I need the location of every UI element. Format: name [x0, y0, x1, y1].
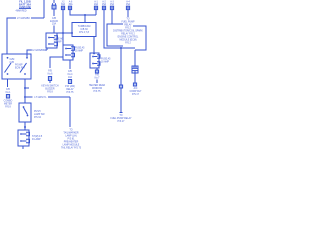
label TO FUEL PUMP RELAY DISTRIBUTOR ECM: [113, 19, 143, 45]
svg-text:LAMP MODULE: LAMP MODULE: [63, 144, 80, 147]
wire CB1 down out: [69, 60, 71, 69]
circuit breaker C/B2: [132, 66, 138, 73]
wire CB1 left out: [50, 57, 63, 68]
svg-text:30 AMP: 30 AMP: [54, 40, 63, 43]
wire C/B2 down: [134, 71, 136, 83]
label TO FUEL PUMP RELAY: [110, 115, 131, 123]
svg-text:C2B: C2B: [10, 62, 15, 64]
svg-text:HEATED REAR: HEATED REAR: [89, 84, 106, 87]
svg-text:P/S 64: P/S 64: [34, 117, 42, 119]
svg-text:TO: TO: [119, 115, 122, 117]
label F/B No.7: [95, 75, 101, 80]
svg-text:30 AMP: 30 AMP: [75, 50, 84, 53]
label fuse A-4: [126, 1, 131, 7]
svg-text:LT GRN/YL: LT GRN/YL: [34, 96, 47, 99]
svg-text:15A: 15A: [52, 23, 57, 26]
wire TURBO to CB2: [93, 37, 95, 54]
wire CB2 down: [96, 68, 98, 70]
fuse A-6: [68, 6, 71, 9]
wire A-3 to ECM box: [111, 10, 113, 24]
fuse symbol combo: [6, 95, 9, 99]
wire A-6 to bus: [70, 10, 96, 15]
fuse F/B No.6 chain: [48, 71, 54, 76]
label ignition switch: [10, 59, 26, 69]
wire bus y33: [57, 32, 72, 34]
wire fuse J-2 down: [62, 10, 64, 45]
svg-text:BUZZER: BUZZER: [45, 89, 55, 91]
ignition switch box: [2, 54, 31, 79]
node at 88: [24, 87, 26, 89]
connector box CB2 with pins: [90, 53, 100, 68]
connector box lower with pins: [18, 130, 30, 146]
fuse symbol No.6: [48, 77, 51, 84]
wire No.7 down: [96, 80, 98, 84]
svg-text:RELAY P/S 2: RELAY P/S 2: [121, 33, 135, 36]
svg-text:RELAY: RELAY: [66, 88, 74, 91]
svg-text:P/S 17: P/S 17: [118, 121, 126, 123]
svg-text:KEY-IN SWITCH: KEY-IN SWITCH: [41, 86, 58, 88]
svg-text:METER: METER: [4, 104, 12, 106]
circuit breaker ECM-B: [52, 0, 56, 33]
svg-text:15A: 15A: [126, 3, 131, 6]
svg-text:P/S 8: P/S 8: [5, 107, 11, 109]
svg-text:A-4: A-4: [126, 1, 130, 4]
svg-text:A-3: A-3: [110, 1, 114, 4]
wire LT GRN/BK: [7, 0, 44, 54]
svg-text:A-1: A-1: [94, 1, 98, 4]
node bus to TURBO box: [84, 14, 86, 16]
svg-text:FUSE A6: FUSE A6: [54, 37, 64, 40]
svg-text:P.W (AM): P.W (AM): [65, 85, 75, 88]
svg-text:20A: 20A: [94, 3, 99, 6]
wire A-1 up: [95, 10, 97, 15]
svg-text:P/S 2: P/S 2: [125, 28, 131, 30]
svg-text:PRE/HEATER: PRE/HEATER: [64, 141, 79, 144]
svg-text:30A: 30A: [61, 3, 66, 6]
svg-text:P/S 4,7,8: P/S 4,7,8: [79, 31, 90, 34]
svg-text:DISTRIBUTOR/COIL SPARK: DISTRIBUTOR/COIL SPARK: [113, 30, 143, 33]
svg-text:P/S 61: P/S 61: [68, 139, 76, 141]
label TURBO box: [78, 25, 91, 34]
svg-text:ENGINE CONTROL: ENGINE CONTROL: [118, 37, 139, 39]
block underline: [19, 7, 31, 9]
svg-text:TAIL RELAY P/S 75: TAIL RELAY P/S 75: [61, 147, 82, 150]
ECM box right bracket: [133, 26, 146, 50]
label key switch: [34, 111, 45, 119]
svg-text:10A: 10A: [68, 76, 73, 79]
svg-text:J-2: J-2: [61, 2, 65, 4]
node at 72: [71, 32, 73, 34]
fusible link block J/B: [19, 0, 31, 9]
wire A-4 down: [127, 10, 129, 17]
svg-text:No.6: No.6: [48, 74, 54, 76]
svg-text:WINDOW: WINDOW: [92, 88, 103, 90]
svg-text:FUEL PUMP: FUEL PUMP: [121, 22, 135, 24]
svg-text:A-6: A-6: [69, 1, 73, 4]
fuse A-3: [110, 6, 113, 9]
svg-text:P/S 2: P/S 2: [125, 43, 131, 45]
label CB1: [75, 47, 85, 53]
svg-text:P/S-BP: P/S-BP: [15, 65, 23, 67]
fuse A-1: [94, 6, 97, 9]
wire down to label: [120, 88, 122, 112]
svg-text:F/B: F/B: [95, 75, 99, 77]
wire A-2 branch down: [120, 48, 122, 85]
label fuse A-6: [68, 1, 73, 7]
stub at 88: [25, 87, 29, 89]
svg-text:LT GRN/BK: LT GRN/BK: [17, 17, 30, 20]
svg-text:RELAY: RELAY: [124, 24, 132, 27]
svg-text:FUSE A5: FUSE A5: [101, 58, 111, 61]
svg-text:P/S 17: P/S 17: [132, 94, 140, 96]
svg-text:LAMP (LH): LAMP (LH): [65, 135, 77, 138]
fuse symbol A/C: [133, 83, 136, 86]
svg-text:COMBO: COMBO: [4, 101, 13, 103]
TURBO junction box: [72, 23, 96, 37]
wire lower out: [22, 146, 24, 149]
wire switch down right leg: [24, 79, 26, 103]
connector box CB1 with pins: [63, 45, 75, 60]
node at 97: [24, 96, 26, 98]
fuse symbol F/B No.7: [95, 70, 98, 73]
svg-text:LAMP SW: LAMP SW: [34, 113, 45, 116]
fuse symbol fuel pump: [119, 85, 122, 88]
svg-text:PUSH: PUSH: [34, 111, 41, 113]
svg-text:ST(M) 0.5: ST(M) 0.5: [32, 136, 43, 138]
label HEATED REAR WINDOW: [89, 84, 106, 93]
label connector lower: [32, 136, 43, 141]
svg-text:P/S 75: P/S 75: [67, 92, 75, 94]
label fuse J-2: [61, 2, 66, 7]
svg-text:F/B: F/B: [68, 71, 72, 73]
connector tick: [120, 112, 123, 114]
svg-text:F/B: F/B: [6, 89, 10, 91]
label TO TAIL MARKER LAMP block: [61, 130, 82, 150]
label A/C COMP RLY: [130, 87, 142, 96]
label CB2: [101, 58, 111, 64]
node at 127: [24, 126, 26, 128]
label P.W (AM) RELAY: [65, 85, 75, 94]
svg-text:30 AMP: 30 AMP: [101, 61, 110, 64]
label KEY-IN SWITCH BUZZER: [41, 86, 58, 94]
label fuse A-1: [94, 1, 99, 7]
svg-text:R LAMP: R LAMP: [32, 138, 41, 141]
key switch box lower: [19, 103, 31, 122]
svg-text:P/S 8: P/S 8: [47, 92, 53, 94]
svg-text:No.7: No.7: [95, 78, 101, 80]
label fuse A-3: [110, 1, 115, 7]
svg-text:15A: 15A: [102, 3, 107, 6]
fuse F/B No.4 chain: [68, 71, 74, 79]
svg-text:30A: 30A: [68, 3, 73, 6]
svg-text:15A: 15A: [110, 3, 115, 6]
svg-text:P/S 75: P/S 75: [94, 91, 102, 93]
label C/B ECM-B: [50, 17, 58, 26]
wire C2 GRN/BK: [27, 48, 47, 57]
svg-text:FUEL PUMP RELAY: FUEL PUMP RELAY: [110, 117, 131, 120]
svg-text:COMP RLY: COMP RLY: [130, 91, 142, 93]
svg-text:TO: TO: [69, 130, 72, 132]
svg-text:TO: TO: [126, 19, 129, 21]
svg-text:TAIL/MARKER: TAIL/MARKER: [63, 132, 78, 135]
svg-text:MODULE (ECM): MODULE (ECM): [119, 40, 136, 42]
svg-text:No.4: No.4: [68, 74, 74, 76]
label COMBO METER: [4, 101, 13, 109]
wire A-2 down and right: [104, 10, 135, 48]
svg-text:A/C: A/C: [134, 87, 138, 90]
relay R1 connector box: [46, 33, 58, 48]
fuse A-4: [126, 6, 129, 9]
fuse A-2: [102, 6, 105, 9]
fuse J-2: [61, 6, 64, 9]
svg-text:C2M: C2M: [10, 59, 15, 61]
ECM box left bracket: [107, 24, 123, 46]
wire key switch down: [24, 122, 26, 130]
wire LT GRN/YL: [26, 97, 70, 127]
label F/B No.1: [6, 89, 12, 94]
fuse symbol No.4: [68, 80, 71, 84]
svg-text:F/B: F/B: [48, 71, 52, 73]
svg-text:4MM RED: 4MM RED: [15, 10, 26, 13]
wire switch to combo fuse: [7, 79, 9, 87]
svg-text:ECM RLY: ECM RLY: [15, 67, 26, 69]
svg-text:FUSE A5: FUSE A5: [75, 47, 85, 50]
label fuse block 30 AMP: [54, 37, 64, 43]
node A-2 branch: [120, 47, 122, 49]
node at 63: [62, 32, 64, 34]
svg-text:No.1: No.1: [6, 92, 12, 94]
wire drop to TURBO box: [84, 15, 86, 22]
wire ECM box down: [134, 50, 136, 66]
label fuse A-2: [102, 1, 107, 7]
svg-text:A-2: A-2: [102, 1, 106, 4]
svg-text:C2 GRN/BK: C2 GRN/BK: [32, 49, 45, 52]
